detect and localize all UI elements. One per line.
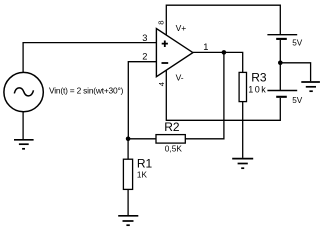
svg-text:0,5K: 0,5K [165, 143, 183, 153]
svg-text:2: 2 [142, 52, 147, 62]
resistor R2 body [156, 135, 185, 144]
AC source V1 circle [4, 72, 43, 111]
svg-text:V+: V+ [176, 23, 187, 33]
svg-text:1: 1 [203, 42, 208, 52]
svg-text:10k: 10k [248, 85, 267, 95]
ground under R1 [118, 216, 138, 225]
svg-text:Vin(t) = 2 sin(wt+30°): Vin(t) = 2 sin(wt+30°) [49, 86, 124, 96]
svg-text:V-: V- [176, 73, 184, 83]
wire R1 bottom to ground [127, 189, 129, 215]
battery B1 negative plate [276, 38, 287, 40]
resistor R3 body [239, 72, 246, 101]
AC source sine symbol [14, 88, 33, 96]
svg-text:5V: 5V [292, 96, 303, 105]
wire op-amp output pin 1 to R3 top [193, 52, 243, 72]
wire input from source to pin 3 [23, 43, 156, 73]
svg-text:R3: R3 [251, 71, 267, 85]
wire V+ rail from op-amp top to battery B1 [166, 5, 280, 35]
op-amp U1 triangle [156, 29, 193, 77]
svg-text:4: 4 [157, 81, 166, 86]
wire V- rail from battery B2 bottom to op-amp bottom [166, 70, 280, 120]
svg-text:R1: R1 [137, 157, 153, 171]
wire inverting node to R1 top [127, 139, 129, 159]
battery B1 positive plate [267, 34, 297, 36]
svg-text:5V: 5V [292, 39, 303, 48]
junction dot mid-supply node [278, 61, 283, 66]
battery B2 positive plate [267, 90, 297, 92]
junction dot output node [222, 50, 227, 55]
wire R3 bottom to ground [242, 102, 244, 158]
ground under source [14, 140, 34, 149]
battery B2 negative plate [276, 96, 287, 98]
svg-text:R2: R2 [164, 120, 180, 134]
wire pin 2 to inverting node [128, 62, 156, 139]
wire source bottom lead to ground [22, 112, 24, 139]
resistor R1 body [123, 159, 132, 189]
wire inverting node to R2 left [128, 138, 156, 140]
ground right of batteries [301, 82, 320, 91]
wire mid-supply node to right ground [280, 63, 310, 82]
svg-text:8: 8 [157, 20, 166, 24]
junction dot inverting node [126, 137, 131, 142]
svg-text:1K: 1K [137, 170, 148, 179]
wire R2 right to output node [185, 52, 224, 138]
op-amp minus input symbol [162, 62, 169, 64]
svg-text:3: 3 [142, 33, 147, 43]
ground under R3 [232, 159, 253, 169]
wire battery B1 to battery B2 [279, 40, 281, 90]
op-amp plus input symbol [162, 41, 168, 48]
